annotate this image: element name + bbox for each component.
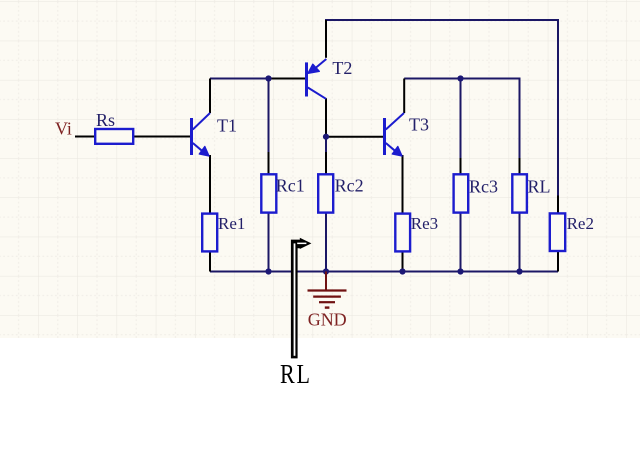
svg-text:Re2: Re2 [567, 214, 594, 233]
svg-text:Rc3: Rc3 [469, 177, 498, 197]
svg-text:T2: T2 [332, 58, 352, 78]
svg-text:Vi: Vi [55, 118, 72, 138]
svg-text:RL: RL [280, 360, 312, 390]
svg-text:T3: T3 [409, 115, 429, 135]
svg-text:Re1: Re1 [218, 214, 245, 233]
svg-text:RL: RL [528, 177, 551, 197]
svg-text:Rc1: Rc1 [276, 175, 305, 195]
svg-text:Re3: Re3 [411, 214, 438, 233]
svg-text:GND: GND [308, 310, 347, 330]
svg-text:T1: T1 [217, 116, 237, 136]
svg-text:Rs: Rs [96, 110, 115, 130]
svg-text:Rc2: Rc2 [335, 175, 364, 195]
